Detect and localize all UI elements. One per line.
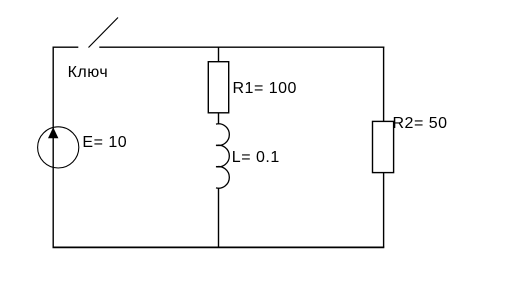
wire right branch top xyxy=(383,47,385,122)
wire left branch xyxy=(52,47,54,248)
switch blade xyxy=(89,18,119,48)
voltage source E1 circle xyxy=(38,127,79,168)
wire L1 to bottom xyxy=(218,188,220,248)
voltage source E1 arrow xyxy=(48,127,58,138)
wire top-left segment xyxy=(53,46,79,48)
svg-text:Ключ: Ключ xyxy=(68,64,109,81)
wire middle branch top stub xyxy=(218,47,220,62)
inductor L1 xyxy=(216,124,229,188)
svg-text:E= 10: E= 10 xyxy=(82,134,127,151)
wire bottom xyxy=(53,246,385,248)
svg-text:R2= 50: R2= 50 xyxy=(393,115,448,132)
wire top-right segment xyxy=(99,46,384,48)
resistor R1 xyxy=(208,62,228,113)
wire R1 to L1 stub xyxy=(218,113,220,125)
svg-text:L= 0.1: L= 0.1 xyxy=(232,149,280,166)
resistor R2 xyxy=(373,121,394,172)
svg-text:R1= 100: R1= 100 xyxy=(233,80,297,97)
wire right branch bottom xyxy=(383,173,385,248)
